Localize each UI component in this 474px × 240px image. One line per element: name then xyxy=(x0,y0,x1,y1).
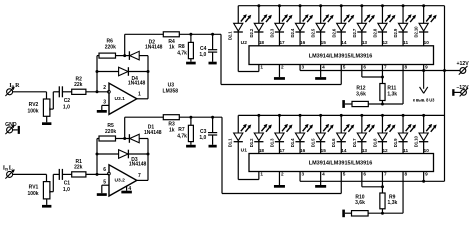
svg-text:9: 9 xyxy=(425,65,428,70)
svg-text:4,7k: 4,7k xyxy=(177,134,187,140)
svg-text:3,6k: 3,6k xyxy=(356,91,366,97)
svg-text:C3: C3 xyxy=(200,129,207,135)
svg-text:12: 12 xyxy=(382,40,388,45)
svg-text:LM358: LM358 xyxy=(163,89,179,95)
svg-text:C2: C2 xyxy=(64,98,71,104)
svg-text:+12V: +12V xyxy=(456,61,469,67)
svg-text:3: 3 xyxy=(302,65,305,70)
svg-text:1k: 1k xyxy=(169,45,175,51)
svg-text:22k: 22k xyxy=(74,82,83,88)
svg-text:12: 12 xyxy=(382,148,388,153)
svg-text:6: 6 xyxy=(363,65,366,70)
svg-text:4: 4 xyxy=(128,186,131,192)
svg-text:7: 7 xyxy=(138,173,141,179)
svg-text:D2.9: D2.9 xyxy=(393,28,398,37)
svg-text:10: 10 xyxy=(424,148,430,153)
svg-text:10: 10 xyxy=(424,40,430,45)
svg-text:D1.2: D1.2 xyxy=(249,138,254,147)
svg-text:8: 8 xyxy=(405,65,408,70)
svg-text:U3.2: U3.2 xyxy=(115,178,126,184)
svg-text:D2.8: D2.8 xyxy=(372,28,377,37)
svg-text:2: 2 xyxy=(281,172,284,177)
svg-text:D1.6: D1.6 xyxy=(331,138,336,147)
svg-text:7: 7 xyxy=(384,172,387,177)
svg-text:3: 3 xyxy=(103,100,106,106)
svg-text:1,0: 1,0 xyxy=(63,187,70,193)
svg-text:5: 5 xyxy=(103,179,106,185)
svg-text:D1.7: D1.7 xyxy=(352,138,357,147)
svg-text:D1.10: D1.10 xyxy=(414,136,419,148)
svg-text:U1: U1 xyxy=(241,148,248,154)
svg-text:4,7k: 4,7k xyxy=(177,51,187,57)
svg-text:U3.1: U3.1 xyxy=(115,96,126,102)
svg-text:11: 11 xyxy=(403,148,408,153)
svg-text:LM3914/LM3915/LM3916: LM3914/LM3915/LM3916 xyxy=(309,53,373,59)
svg-text:1N4148: 1N4148 xyxy=(145,44,163,50)
svg-text:100k: 100k xyxy=(27,109,38,115)
svg-text:1N4148: 1N4148 xyxy=(129,162,147,168)
svg-text:13: 13 xyxy=(362,148,368,153)
svg-text:22k: 22k xyxy=(74,165,83,171)
svg-text:5: 5 xyxy=(343,65,346,70)
svg-text:14: 14 xyxy=(341,148,347,153)
svg-text:4: 4 xyxy=(322,65,325,70)
svg-text:D2.10: D2.10 xyxy=(414,26,419,38)
svg-text:11: 11 xyxy=(403,40,408,45)
svg-text:1N4148: 1N4148 xyxy=(128,81,146,87)
svg-text:1,0: 1,0 xyxy=(199,135,206,141)
svg-text:1,3k: 1,3k xyxy=(387,91,397,97)
svg-text:220k: 220k xyxy=(105,45,116,51)
svg-text:RV2: RV2 xyxy=(29,102,39,108)
svg-text:1: 1 xyxy=(260,172,263,177)
svg-text:1,3k: 1,3k xyxy=(388,200,398,206)
svg-text:D2.5: D2.5 xyxy=(311,28,316,37)
svg-text:R6: R6 xyxy=(106,38,113,44)
svg-text:D1.8: D1.8 xyxy=(372,138,377,147)
svg-text:15: 15 xyxy=(321,148,327,153)
svg-text:D1.3: D1.3 xyxy=(269,138,274,147)
svg-text:D2.1: D2.1 xyxy=(228,31,233,40)
svg-text:D2.7: D2.7 xyxy=(352,28,357,37)
svg-text:2: 2 xyxy=(281,65,284,70)
svg-text:R7: R7 xyxy=(178,127,185,133)
svg-text:17: 17 xyxy=(279,40,285,45)
svg-text:3: 3 xyxy=(302,172,305,177)
svg-text:6: 6 xyxy=(103,167,106,173)
svg-text:RV1: RV1 xyxy=(29,185,39,191)
svg-text:1,0: 1,0 xyxy=(199,52,206,58)
svg-text:1: 1 xyxy=(138,92,141,98)
svg-text:16: 16 xyxy=(300,40,306,45)
svg-text:4: 4 xyxy=(322,172,325,177)
svg-text:1k: 1k xyxy=(169,128,175,134)
svg-text:к выв. 8 U3: к выв. 8 U3 xyxy=(413,98,435,103)
svg-text:U2: U2 xyxy=(241,40,248,46)
svg-text:C4: C4 xyxy=(200,46,207,52)
svg-text:D1.1: D1.1 xyxy=(228,138,233,147)
svg-text:D2.4: D2.4 xyxy=(290,28,295,37)
svg-text:−12V: −12V xyxy=(456,85,469,91)
svg-text:18: 18 xyxy=(259,40,265,45)
svg-text:18: 18 xyxy=(259,148,265,153)
svg-text:LM3914/LM3915/LM3916: LM3914/LM3915/LM3916 xyxy=(309,161,373,167)
svg-text:5: 5 xyxy=(343,172,346,177)
svg-text:C1: C1 xyxy=(64,181,71,187)
svg-text:7: 7 xyxy=(384,65,387,70)
svg-text:17: 17 xyxy=(279,148,285,153)
svg-text:13: 13 xyxy=(362,40,368,45)
svg-text:1N4148: 1N4148 xyxy=(144,130,162,136)
svg-text:220k: 220k xyxy=(105,129,116,135)
svg-text:14: 14 xyxy=(341,40,347,45)
svg-text:16: 16 xyxy=(300,148,306,153)
svg-text:D1.9: D1.9 xyxy=(393,138,398,147)
svg-text:1: 1 xyxy=(260,65,263,70)
svg-text:9: 9 xyxy=(425,172,428,177)
svg-text:8: 8 xyxy=(405,172,408,177)
svg-text:D1.4: D1.4 xyxy=(290,138,295,147)
svg-text:D1.5: D1.5 xyxy=(311,138,316,147)
svg-text:6: 6 xyxy=(363,172,366,177)
svg-text:D2.2: D2.2 xyxy=(249,28,254,37)
svg-text:1,0: 1,0 xyxy=(63,104,70,110)
svg-text:3,6k: 3,6k xyxy=(355,200,365,206)
svg-text:100k: 100k xyxy=(27,191,38,197)
svg-text:D2.6: D2.6 xyxy=(331,28,336,37)
svg-text:2: 2 xyxy=(103,85,106,91)
svg-text:R8: R8 xyxy=(178,44,185,50)
svg-text:15: 15 xyxy=(321,40,327,45)
svg-text:D2.3: D2.3 xyxy=(269,28,274,37)
